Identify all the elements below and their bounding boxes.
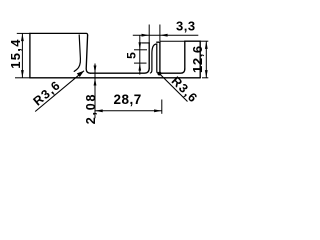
arrowhead leader left R3,6 bbox=[77, 71, 84, 77]
arrowhead left 28,7 bbox=[95, 109, 103, 112]
rib right face with fillet into web bbox=[160, 42, 162, 73]
arrowhead right 3,3 left bbox=[142, 34, 150, 37]
right wall left face bbox=[184, 41, 186, 69]
arrowhead up 12,6 top bbox=[205, 41, 208, 49]
extension line bottom right for 12,6 bbox=[202, 77, 208, 79]
profile bottom edge bbox=[30, 77, 200, 79]
arrowhead down 5 top bbox=[139, 42, 142, 50]
extension line bottom left for 15,4 bbox=[15, 77, 30, 79]
left block inner slot line bbox=[74, 35, 80, 71]
profile left face bbox=[29, 33, 31, 77]
svg-text:28,7: 28,7 bbox=[113, 92, 141, 107]
svg-text:15,4: 15,4 bbox=[8, 38, 23, 69]
dimension line 15,4 bbox=[21, 33, 23, 77]
arrowhead down 2,08 top bbox=[94, 66, 97, 74]
svg-text:5: 5 bbox=[125, 52, 139, 59]
leader dot right R3,6 bbox=[158, 72, 162, 76]
extension line top for 5 bbox=[134, 49, 147, 51]
arrowhead up 2,08 bottom bbox=[94, 78, 97, 86]
rib top lip line bbox=[142, 42, 150, 44]
web top face right segment with right wall fillet bbox=[162, 69, 185, 73]
rib inner hook curve bbox=[150, 44, 158, 73]
dimension line 3,3 with tails bbox=[133, 34, 199, 36]
dimension line 5 bbox=[139, 35, 141, 74]
dimension line 28,7 bbox=[95, 110, 162, 112]
right wall right face bbox=[199, 41, 201, 78]
leader line left R3,6 bbox=[35, 71, 84, 112]
extension line right for 3,3 bbox=[159, 25, 161, 42]
arrowhead down 15,4 bottom bbox=[21, 70, 24, 78]
svg-text:12,6: 12,6 bbox=[190, 45, 205, 73]
right wall top edge bbox=[185, 40, 200, 42]
rib cap bbox=[157, 41, 160, 43]
arrowhead left 3,3 right bbox=[160, 34, 168, 37]
dimension line 2,08 bbox=[94, 64, 96, 119]
leader line right R3,6 bbox=[159, 74, 187, 102]
arrowhead up 5 bottom bbox=[139, 63, 142, 71]
arrowhead down 12,6 bottom bbox=[205, 70, 208, 78]
extension line right for 28,7 bbox=[161, 100, 163, 114]
extension line top left for 15,4 bbox=[17, 32, 30, 34]
extension line bottom for 5 bbox=[134, 62, 147, 64]
svg-text:3,3: 3,3 bbox=[176, 18, 196, 33]
extension line top right for 12,6 bbox=[200, 40, 208, 42]
dimension line 12,6 bbox=[205, 41, 207, 78]
profile top edge of left block bbox=[30, 33, 88, 35]
extension line left for 3,3 bbox=[148, 25, 150, 43]
extension line from rib to right wall at top bbox=[160, 40, 185, 42]
arrowhead up 15,4 top bbox=[21, 33, 24, 41]
svg-text:2,08: 2,08 bbox=[84, 93, 98, 125]
arrowhead right 28,7 bbox=[154, 109, 162, 112]
web top face left segment with rib left fillet bbox=[90, 68, 149, 73]
left block right face with bottom fillet into web bbox=[86, 35, 90, 73]
rib left face bbox=[148, 43, 150, 68]
